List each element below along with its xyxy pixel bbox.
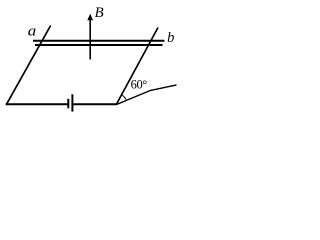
B field arrow shaft: [89, 18, 91, 60]
svg-text:a: a: [28, 24, 37, 40]
svg-text:b: b: [167, 30, 174, 46]
svg-text:B: B: [95, 5, 104, 21]
conducting rod ab (top line): [33, 40, 165, 42]
battery negative plate (short): [67, 99, 69, 109]
battery positive plate (long): [71, 94, 73, 111]
incline reference line (60 deg leg): [116, 85, 176, 105]
B field arrowhead: [87, 14, 93, 20]
angle arc: [121, 95, 126, 101]
bottom wire right segment: [73, 103, 116, 105]
svg-text:60°: 60°: [131, 78, 148, 92]
left rail: [6, 26, 50, 105]
right rail: [116, 28, 158, 105]
bottom wire left segment: [6, 103, 68, 105]
conducting rod ab (bottom line): [35, 44, 163, 46]
